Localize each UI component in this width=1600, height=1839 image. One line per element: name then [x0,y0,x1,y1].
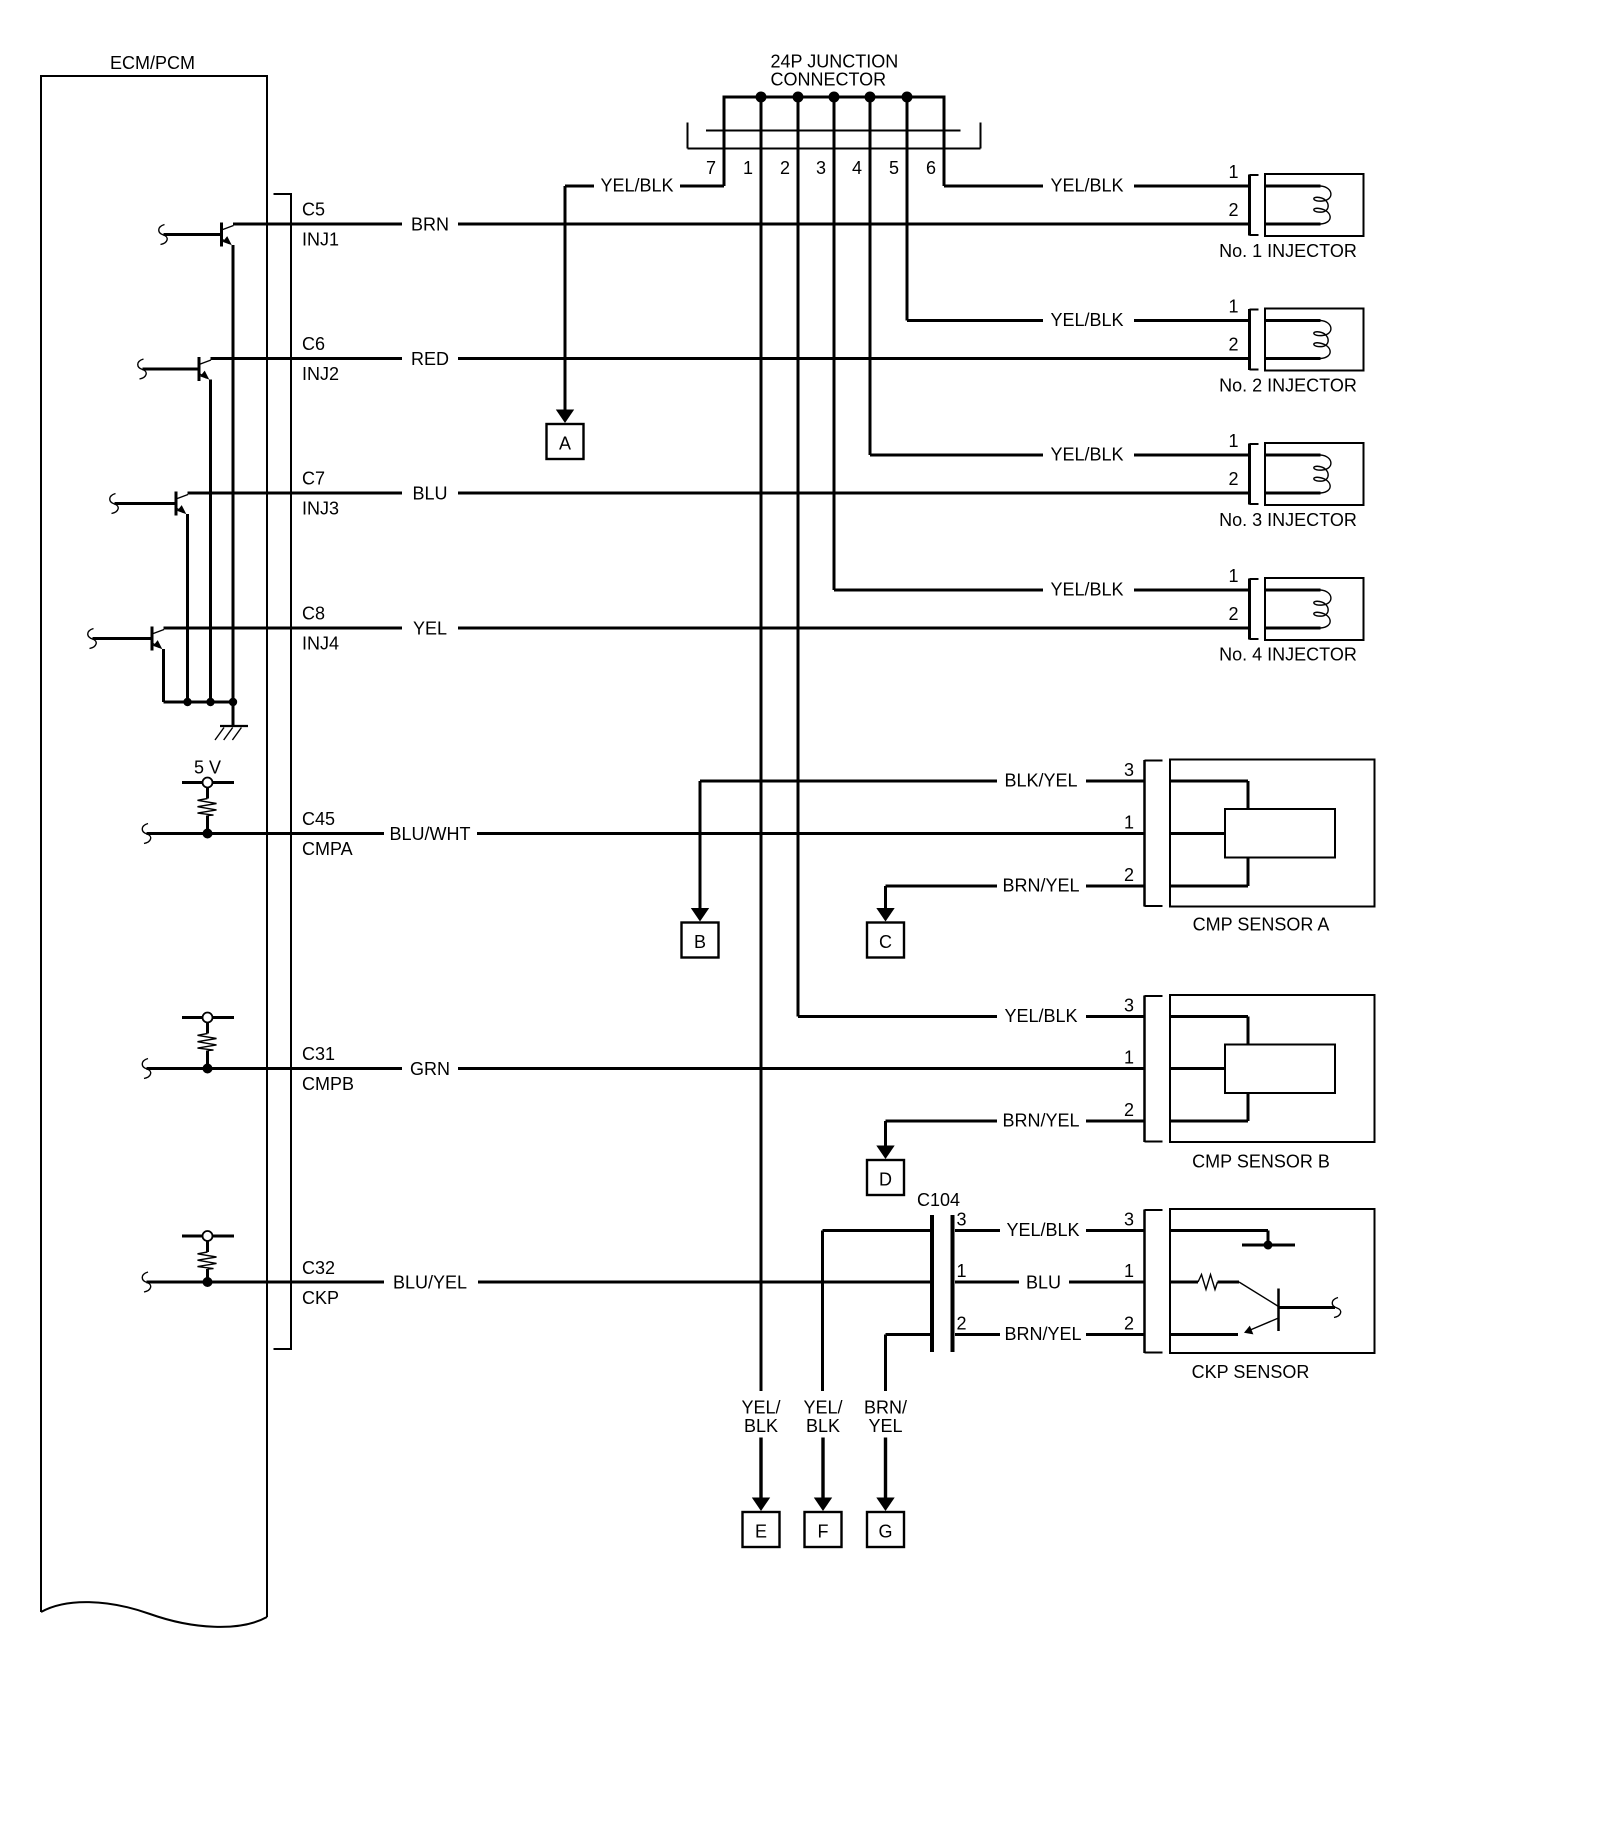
label GRN [410,1059,450,1079]
arrow to node C [876,908,894,922]
svg-text:No. 1 INJECTOR: No. 1 INJECTOR [1219,241,1357,261]
wire BLK/YEL (CMP A pin 3) to node B [700,781,1145,908]
node B [682,923,719,958]
label YEL/BLK (pin 7) [600,176,673,196]
transistor Q2 [138,357,211,702]
injector No.4 [1219,566,1363,665]
svg-text:BLU: BLU [412,484,447,504]
svg-text:YEL/BLK: YEL/BLK [1006,1220,1079,1240]
label BLU [412,484,447,504]
label C7/INJ3 [302,469,339,519]
svg-text:2: 2 [1228,200,1238,220]
label C45/CMPA [302,809,353,859]
svg-text:RED: RED [411,349,449,369]
svg-text:C32: C32 [302,1258,335,1278]
svg-text:YEL/BLK: YEL/BLK [1050,310,1123,330]
svg-text:G: G [878,1522,892,1542]
wire BRN/YEL drop to node G [884,1335,887,1392]
svg-text:YEL/: YEL/ [741,1398,780,1418]
junction dot pin 5 [902,92,913,103]
label YEL/BLK (injector 3) [1050,445,1123,465]
svg-text:2: 2 [1228,469,1238,489]
wire C5 BRN (ECM to injector 1 pin 2) [233,223,1248,226]
label C8/INJ4 [302,604,339,654]
label RED [411,349,449,369]
svg-text:GRN: GRN [410,1059,450,1079]
wire C7 BLU (ECM to injector 3 pin 2) [188,492,1249,495]
ground [215,726,248,740]
svg-text:YEL/BLK: YEL/BLK [1004,1006,1077,1026]
svg-text:5 V: 5 V [194,758,221,778]
connector C104 [932,1215,953,1352]
svg-text:YEL/BLK: YEL/BLK [1050,176,1123,196]
svg-text:1: 1 [1228,162,1238,182]
svg-text:3: 3 [816,158,826,178]
5V supply and resistor R1 (CMPA pull-up) [182,758,234,839]
transistor Q3 [110,492,188,703]
ECM/PCM label [110,53,195,73]
label YEL/BLK (injector 4) [1050,580,1123,600]
node F [805,1512,842,1547]
svg-text:YEL/BLK: YEL/BLK [1050,580,1123,600]
junction dot pin 3 [829,92,840,103]
svg-text:C31: C31 [302,1044,335,1064]
svg-text:E: E [755,1522,767,1542]
svg-text:INJ4: INJ4 [302,634,339,654]
svg-text:YEL/BLK: YEL/BLK [600,176,673,196]
wire YEL/BLK drop to node F [821,1231,824,1392]
svg-text:1: 1 [1228,431,1238,451]
CKP sensor internals [1170,1231,1341,1335]
CKP sensor body [1124,1209,1375,1382]
node D [867,1160,904,1195]
label C6/INJ2 [302,334,339,384]
wire pin 6 to injector 1 pin 1 [944,96,1248,187]
junction dot T2 emitter [206,698,214,706]
svg-text:BRN/YEL: BRN/YEL [1002,1111,1079,1131]
junction dot pin 2 [793,92,804,103]
24P junction connector label [771,52,899,90]
svg-text:BLK: BLK [806,1416,840,1436]
svg-text:C6: C6 [302,334,325,354]
svg-text:7: 7 [706,158,716,178]
svg-text:C104: C104 [917,1190,960,1210]
injector No.1 [1219,162,1363,261]
wire pin 4 to injector 3 pin 1 [870,96,1248,456]
wire BRN/YEL (CMP B pin 2) to node D [886,1121,1146,1146]
svg-text:C45: C45 [302,809,335,829]
label BLU/YEL [393,1273,467,1293]
svg-text:C5: C5 [302,200,325,220]
CMP sensor B body [1124,995,1375,1172]
svg-text:BLK/YEL: BLK/YEL [1004,771,1077,791]
label BLK/YEL [1004,771,1077,791]
wire pin 7 YEL/BLK to node A [565,96,724,412]
svg-text:BLK: BLK [744,1416,778,1436]
label YEL/BLK (node E) [741,1398,780,1437]
junction dot T1 emitter [229,698,237,706]
wire pin 2 vertical to CMP sensor B pin 3 [798,96,1145,1017]
svg-text:No. 2 INJECTOR: No. 2 INJECTOR [1219,376,1357,396]
svg-text:1: 1 [1124,813,1134,833]
node G [867,1512,904,1547]
label C5/INJ1 [302,200,339,250]
label BRN/YEL (CKP pin 2) [1004,1324,1081,1344]
wire BLU (C104 pin 1 to CKP pin 1) [955,1281,1145,1284]
svg-text:INJ3: INJ3 [302,499,339,519]
svg-text:YEL/BLK: YEL/BLK [1050,445,1123,465]
svg-text:2: 2 [780,158,790,178]
label YEL/BLK (injector 1) [1050,176,1123,196]
svg-text:C: C [879,932,892,952]
svg-text:BRN: BRN [411,215,449,235]
wire BRN/YEL (C104 pin 2 to CKP pin 2) [886,1333,1146,1336]
label C31/CMPB [302,1044,354,1094]
junction dot pin 1 [756,92,767,103]
label YEL/BLK (CMP B pin 3) [1004,1006,1077,1026]
wire YEL/BLK (C104 pin 3 to CKP pin 3) [823,1229,1146,1232]
wire pin 3 to injector 4 pin 1 [834,96,1248,591]
label BRN/YEL (CMP B) [1002,1111,1079,1131]
arrow to node A [556,410,574,424]
arrow to node B [691,908,709,922]
svg-text:2: 2 [1124,1100,1134,1120]
svg-text:4: 4 [852,158,862,178]
svg-text:No. 3 INJECTOR: No. 3 INJECTOR [1219,510,1357,530]
svg-text:3: 3 [1124,1210,1134,1230]
svg-text:CMP SENSOR A: CMP SENSOR A [1193,915,1330,935]
svg-text:24P JUNCTION: 24P JUNCTION [771,52,899,72]
label YEL/BLK (injector 2) [1050,310,1123,330]
svg-text:C7: C7 [302,469,325,489]
emitter ground bus wire [164,701,234,704]
svg-text:5: 5 [889,158,899,178]
ground drop wire [232,702,235,726]
svg-text:BLU/WHT: BLU/WHT [390,824,471,844]
svg-text:A: A [559,434,571,454]
svg-text:F: F [818,1522,829,1542]
junction dot T3 emitter [183,698,191,706]
svg-text:BLU: BLU [1026,1273,1061,1293]
wire pin 1 vertical [760,96,763,1392]
wire C31 GRN (ECM to CMP sensor B pin 1) [142,1059,1145,1079]
svg-text:CMP SENSOR B: CMP SENSOR B [1192,1152,1330,1172]
label C104 [917,1190,960,1210]
wire C8 YEL (ECM to injector 4 pin 2) [164,627,1249,630]
label YEL/BLK (CKP pin 3) [1006,1220,1079,1240]
svg-text:3: 3 [1124,996,1134,1016]
svg-text:3: 3 [1124,760,1134,780]
resistor R2 (CMPB pull-up) [182,1013,234,1074]
svg-text:INJ1: INJ1 [302,230,339,250]
wire C45 BLU/WHT (ECM to CMP sensor A pin 1) [142,824,1145,844]
label YEL [413,619,447,639]
svg-text:2: 2 [1228,604,1238,624]
svg-text:1: 1 [1124,1048,1134,1068]
svg-text:2: 2 [1124,865,1134,885]
C104 pin number labels [957,1210,967,1334]
junction connector body [688,123,981,149]
svg-text:CONNECTOR: CONNECTOR [771,70,887,90]
svg-text:3: 3 [957,1210,967,1230]
arrow to node E [752,1438,770,1512]
svg-text:YEL: YEL [413,619,447,639]
svg-text:CKP: CKP [302,1288,339,1308]
svg-text:BLU/YEL: BLU/YEL [393,1273,467,1293]
svg-text:6: 6 [926,158,936,178]
transistor Q1 [159,223,234,703]
ECM/PCM box [41,76,267,1627]
svg-text:INJ2: INJ2 [302,364,339,384]
wire C6 RED (ECM to injector 2 pin 2) [211,357,1249,360]
injector No.2 [1219,297,1363,396]
svg-text:2: 2 [1124,1314,1134,1334]
CMP sensor B element [1170,1017,1335,1122]
label BRN/YEL (CMP A) [1002,876,1079,896]
label BLU (CKP pin 1) [1026,1273,1061,1293]
arrow to node D [876,1146,894,1160]
arrow to node G [876,1438,894,1512]
svg-text:YEL/: YEL/ [803,1398,842,1418]
svg-text:CMPA: CMPA [302,839,353,859]
junction dot pin 4 [865,92,876,103]
svg-text:BRN/YEL: BRN/YEL [1004,1324,1081,1344]
svg-text:YEL: YEL [868,1416,902,1436]
label C32/CKP [302,1258,339,1308]
svg-text:C8: C8 [302,604,325,624]
wire YEL/BLK drop to node E [760,1282,763,1391]
ECM connector bracket [274,194,292,1349]
svg-text:1: 1 [743,158,753,178]
svg-text:No. 4 INJECTOR: No. 4 INJECTOR [1219,645,1357,665]
svg-text:B: B [694,932,706,952]
svg-text:1: 1 [1228,566,1238,586]
label YEL/BLK (node F) [803,1398,842,1437]
label BRN [411,215,449,235]
node E [743,1512,780,1547]
node A [547,424,584,459]
wire C32 BLU/YEL (ECM to C104 pin 1) [142,1272,930,1292]
pin number labels [706,158,936,178]
svg-text:2: 2 [1228,335,1238,355]
arrow to node F [814,1438,832,1512]
svg-text:BRN/: BRN/ [864,1398,907,1418]
svg-text:CKP SENSOR: CKP SENSOR [1192,1362,1310,1382]
svg-text:1: 1 [957,1261,967,1281]
label BLU/WHT [390,824,471,844]
svg-text:2: 2 [957,1314,967,1334]
svg-text:1: 1 [1124,1261,1134,1281]
label BRN/YEL (node G) [864,1398,907,1437]
svg-text:1: 1 [1228,297,1238,317]
node C [867,923,904,958]
CMP sensor A element [1170,781,1335,886]
junction connector bus wire [724,96,944,99]
svg-text:ECM/PCM: ECM/PCM [110,53,195,73]
transistor Q4 [88,627,164,703]
CMP sensor A body [1124,760,1375,935]
wire BRN/YEL (CMP A pin 2) to node C [886,886,1146,908]
svg-text:CMPB: CMPB [302,1074,354,1094]
injector No.3 [1219,431,1363,530]
svg-text:BRN/YEL: BRN/YEL [1002,876,1079,896]
svg-text:D: D [879,1170,892,1190]
resistor R3 (CKP pull-up) [182,1231,234,1287]
wire pin 5 to injector 2 pin 1 [907,96,1248,321]
